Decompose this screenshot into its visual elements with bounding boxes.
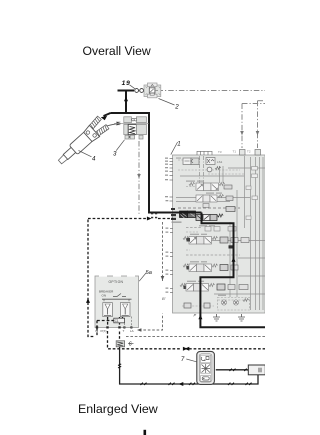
svg-text:T: T xyxy=(123,329,125,333)
svg-text:LA: LA xyxy=(130,329,134,333)
svg-text:T2: T2 xyxy=(247,150,251,154)
svg-text:P(X): P(X) xyxy=(101,329,107,333)
svg-text:19: 19 xyxy=(122,80,131,87)
svg-text:OPTION: OPTION xyxy=(109,280,124,284)
svg-text:Overall View: Overall View xyxy=(83,44,151,58)
svg-text:6: 6 xyxy=(129,342,133,348)
svg-text:1: 1 xyxy=(177,140,180,147)
svg-text:IN: IN xyxy=(95,329,98,333)
svg-text:ON: ON xyxy=(102,293,107,297)
svg-text:C1: C1 xyxy=(115,319,119,323)
svg-text:T3: T3 xyxy=(218,150,222,154)
svg-text:2: 2 xyxy=(174,104,179,111)
svg-text:LS1: LS1 xyxy=(217,160,223,164)
svg-text:3: 3 xyxy=(113,150,117,157)
svg-text:B': B' xyxy=(162,296,166,301)
svg-text:4: 4 xyxy=(92,155,96,162)
svg-text:Enlarged View: Enlarged View xyxy=(78,402,158,416)
svg-text:T1: T1 xyxy=(233,150,237,154)
svg-text:P: P xyxy=(194,313,197,318)
svg-text:7: 7 xyxy=(181,356,185,363)
